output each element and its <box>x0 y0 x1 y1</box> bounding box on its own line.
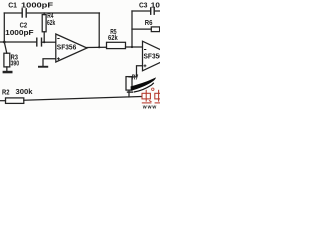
svg-text:300k: 300k <box>16 87 34 96</box>
svg-text:C1: C1 <box>8 0 17 9</box>
svg-text:R7: R7 <box>132 73 139 82</box>
plus sign U2 <box>144 64 147 67</box>
resistor R7 <box>126 77 132 91</box>
ground (R3) <box>3 71 13 74</box>
svg-text:SF356: SF356 <box>144 52 161 61</box>
minus sign U2 <box>144 49 146 50</box>
svg-text:www: www <box>142 105 157 111</box>
resistor R6 <box>151 27 159 32</box>
plus sign U1 <box>57 57 60 60</box>
wire: U2 non-inverting input to R7 <box>129 66 143 77</box>
node: right rail/output junction <box>131 46 133 48</box>
capacitor C1 <box>22 9 26 17</box>
node: R4 bottom junction <box>43 41 45 43</box>
capacitor C2 <box>37 38 42 46</box>
wire: top wire left segment to C1 <box>4 12 22 14</box>
ground (U1 + input) <box>38 66 48 68</box>
wire: top wire from C1 to feedback corner <box>26 12 99 14</box>
wire: non-inverting input to ground <box>43 59 56 66</box>
wire: right feedback rail <box>131 11 133 47</box>
wire: left rail <box>4 13 7 53</box>
wire: mid wire from left edge to C2 <box>0 41 37 43</box>
svg-text:1000pF: 1000pF <box>5 28 34 37</box>
watermark swoosh echo stroke <box>134 83 154 92</box>
ground bar near R7 <box>127 91 134 92</box>
watermark swoosh main stroke <box>131 77 156 90</box>
node A: rail/mid-wire junction <box>3 41 6 44</box>
svg-text:1000pF: 1000pF <box>151 0 160 9</box>
op-amp U2 SF356 <box>143 41 175 71</box>
node: feedback/output junction <box>98 46 100 48</box>
svg-text:R2: R2 <box>2 87 10 96</box>
svg-text:390: 390 <box>11 58 19 67</box>
resistor R5 <box>107 42 126 48</box>
resistor R2 <box>6 98 24 104</box>
wire: C3 branch <box>132 10 151 12</box>
watermark red glyph 1 <box>142 88 154 103</box>
svg-text:1000pF: 1000pF <box>21 0 54 9</box>
minus sign U1 <box>57 38 59 39</box>
watermark red glyph 2 (clipped) <box>155 90 164 103</box>
svg-text:SF356: SF356 <box>57 42 77 51</box>
wire: feedback vertical down to output <box>98 13 100 47</box>
svg-text:C3: C3 <box>139 0 148 9</box>
resistor R3 <box>4 53 10 67</box>
svg-text:62k: 62k <box>47 18 56 27</box>
op-amp U1 SF356 <box>56 34 87 62</box>
capacitor C3 <box>151 8 155 14</box>
wire: bottom wire left stub <box>0 100 6 102</box>
wire: bottom wire sloped <box>24 97 141 101</box>
wire: output wire <box>87 46 107 48</box>
wire: R6 branch <box>132 28 151 30</box>
svg-text:R6: R6 <box>145 18 153 27</box>
wire: mid wire from C2 to op-amp inverting input <box>42 41 56 43</box>
resistor R4 <box>43 13 45 15</box>
svg-text:62k: 62k <box>108 33 118 42</box>
wire: R5 to op-amp U2 <box>126 46 143 48</box>
